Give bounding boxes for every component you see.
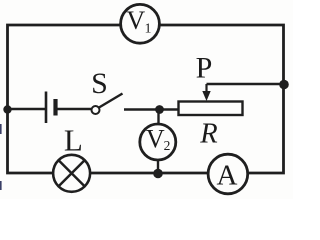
- wire battery to switch: [57, 108, 92, 110]
- wire wiper to right wire: [207, 83, 284, 86]
- wire switch to rheostat: [124, 108, 179, 110]
- battery B1: [46, 92, 56, 124]
- svg-text:V: V: [146, 124, 165, 153]
- voltmeter V1: [121, 4, 160, 43]
- wire outer loop: [8, 25, 284, 173]
- scan artifact edge mark 1: [0, 124, 2, 134]
- rheostat R body: [179, 102, 243, 116]
- scan artifact edge mark 2: [0, 181, 2, 190]
- node junction bottom wire: [153, 169, 163, 179]
- svg-text:1: 1: [145, 22, 152, 37]
- svg-text:S: S: [91, 67, 108, 100]
- wire V2 stem bottom: [157, 157, 159, 174]
- svg-text:P: P: [196, 52, 213, 85]
- wire battery branch left: [8, 108, 46, 110]
- ammeter A: [208, 154, 248, 194]
- svg-text:L: L: [64, 123, 83, 158]
- lamp L: [53, 155, 90, 192]
- wire V2 stem top: [157, 110, 159, 128]
- voltmeter V2: [140, 124, 176, 160]
- svg-text:A: A: [217, 160, 238, 192]
- node junction V2 top: [155, 105, 164, 114]
- svg-text:V: V: [126, 6, 145, 35]
- switch S: [92, 94, 123, 115]
- node junction right wire: [279, 80, 289, 90]
- svg-text:R: R: [199, 119, 217, 150]
- svg-text:2: 2: [164, 138, 171, 153]
- rheostat wiper P arrow: [202, 84, 210, 101]
- node junction left wire: [3, 105, 11, 113]
